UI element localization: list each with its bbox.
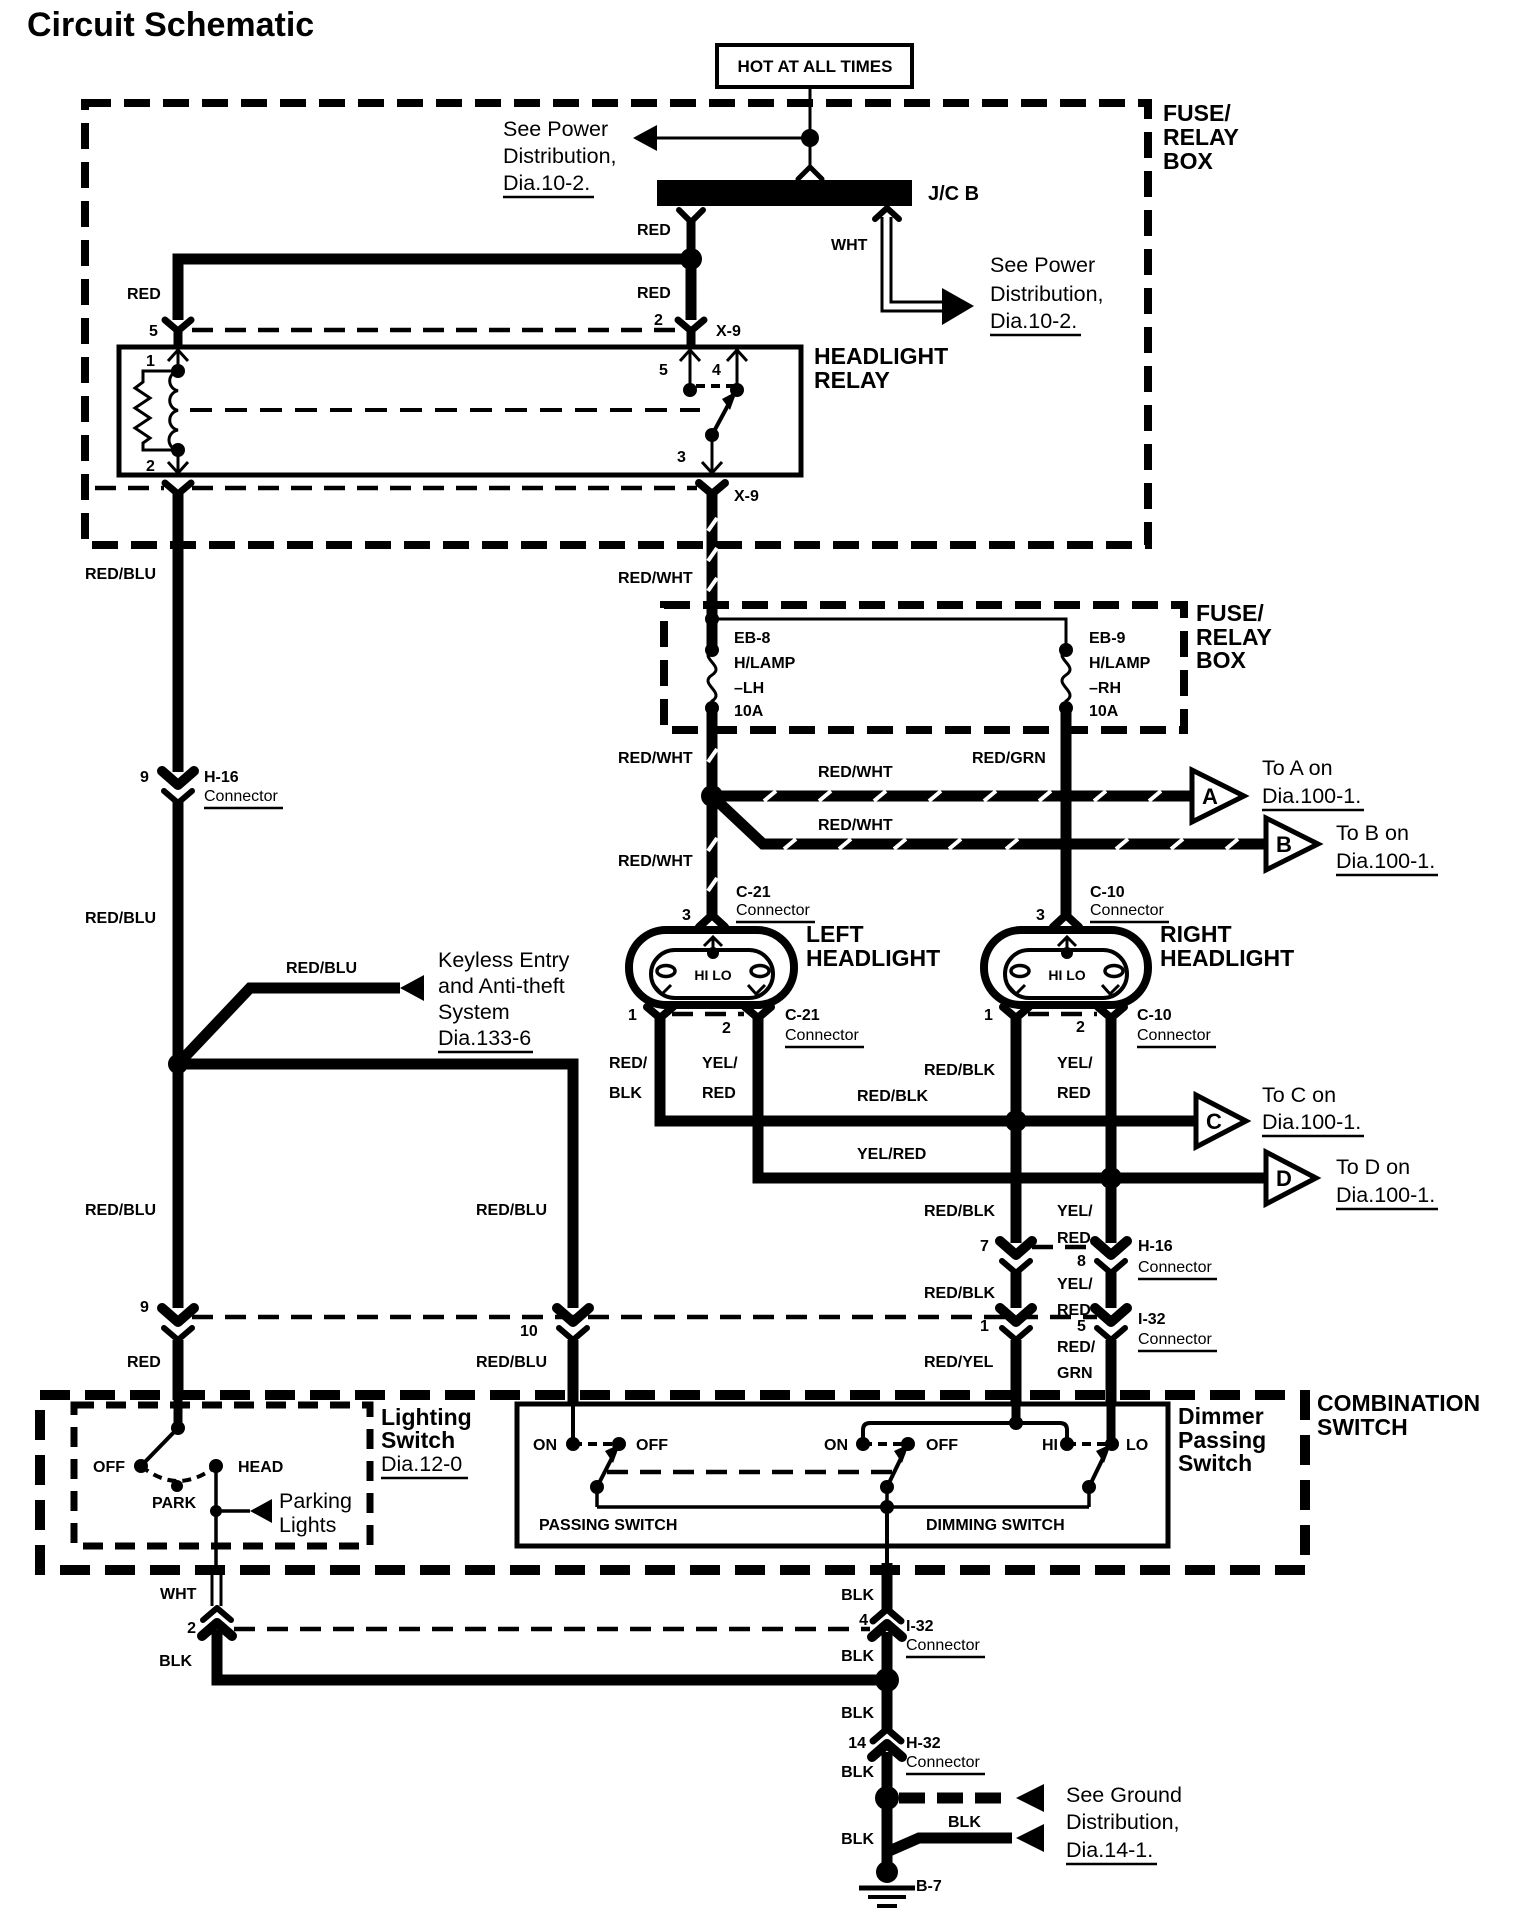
svg-text:WHT: WHT <box>160 1586 197 1603</box>
off-page arrow B <box>1266 818 1318 870</box>
node junction dot RED feed <box>680 248 702 270</box>
wire slash marks RED/WHT to left headlight <box>708 838 717 891</box>
svg-text:HI: HI <box>1042 1437 1058 1454</box>
svg-text:DIMMING SWITCH: DIMMING SWITCH <box>926 1517 1065 1534</box>
svg-text:To D on: To D on <box>1336 1155 1410 1179</box>
svg-text:HI LO: HI LO <box>694 967 731 983</box>
svg-text:C-10: C-10 <box>1137 1007 1172 1024</box>
LEFT HEADLIGHT label <box>806 921 940 971</box>
lamp left headlight inner shell <box>651 950 773 998</box>
wire HEAD contact down <box>214 1466 218 1569</box>
svg-text:RELAY: RELAY <box>1163 124 1239 150</box>
svg-text:YEL/RED: YEL/RED <box>857 1146 926 1163</box>
wire RED/GRN into LO contact <box>1106 1340 1117 1441</box>
connector H-16 pin 8 chevrons <box>1095 1241 1127 1273</box>
svg-text:I-32: I-32 <box>906 1618 934 1635</box>
left headlight LO filament contact <box>751 966 769 977</box>
svg-text:Lights: Lights <box>279 1513 336 1537</box>
COMBINATION SWITCH label <box>1317 1390 1480 1440</box>
connector C-21 pin 1 flare <box>647 1007 673 1018</box>
svg-text:Switch: Switch <box>1178 1450 1252 1476</box>
svg-text:C-21: C-21 <box>785 1007 820 1024</box>
svg-text:I-32: I-32 <box>1138 1311 1166 1328</box>
fuse EB-8 H/LAMP-LH 10A <box>705 643 719 715</box>
dashed connector line X-9 bottom <box>95 486 697 491</box>
wire link between fuses <box>712 619 1066 650</box>
svg-text:RED/BLU: RED/BLU <box>85 566 156 583</box>
svg-text:RED: RED <box>127 286 161 303</box>
svg-text:RED: RED <box>637 285 671 302</box>
svg-text:Connector: Connector <box>204 788 278 805</box>
svg-text:Connector: Connector <box>1137 1027 1211 1044</box>
RED/ BLK label left pin1 <box>609 1055 648 1102</box>
svg-text:J/C B: J/C B <box>928 183 979 205</box>
svg-text:X-9: X-9 <box>734 488 759 505</box>
wire BLK junction to H-32 <box>882 1680 893 1730</box>
wire RED/BLK left headlight pin 1 to C <box>660 1017 1196 1121</box>
svg-text:YEL/: YEL/ <box>1057 1203 1093 1220</box>
svg-text:Distribution,: Distribution, <box>503 144 617 168</box>
dashed connector line I-32 row <box>192 1315 1097 1320</box>
svg-text:3: 3 <box>1036 907 1045 924</box>
resistor relay coil shunt <box>135 371 178 450</box>
svg-text:RED: RED <box>127 1354 161 1371</box>
wire slash mark RED/WHT mid <box>708 749 717 762</box>
connector I-32 pin 2 chevrons <box>202 1608 232 1636</box>
svg-text:System: System <box>438 1000 510 1024</box>
svg-text:H-16: H-16 <box>1138 1238 1173 1255</box>
connector I-32 pin 4 chevrons <box>872 1609 902 1637</box>
dashed link passing ON-OFF <box>573 1442 619 1446</box>
See Power Distribution Dia.10-2 (right) label <box>990 253 1104 335</box>
off-page arrow C <box>1196 1095 1246 1147</box>
connector C-10 pin 1 flare <box>1003 1007 1029 1018</box>
wire YEL/RED to I-32 pin 5 <box>1106 1271 1117 1308</box>
wire arrow to See Power Distribution (left) <box>633 125 810 151</box>
fuse/relay box 2 label <box>1196 600 1272 673</box>
svg-text:HOT AT ALL TIMES: HOT AT ALL TIMES <box>738 57 893 76</box>
svg-text:2: 2 <box>722 1020 731 1037</box>
wire RED horizontal and down to relay pin 5 <box>178 259 691 320</box>
Parking Lights label <box>279 1489 352 1537</box>
svg-text:See Ground: See Ground <box>1066 1783 1182 1807</box>
svg-text:C-10: C-10 <box>1090 884 1125 901</box>
svg-text:Dia.10-2.: Dia.10-2. <box>503 171 590 195</box>
svg-text:RED/BLU: RED/BLU <box>476 1354 547 1371</box>
svg-text:OFF: OFF <box>926 1437 958 1454</box>
svg-text:BOX: BOX <box>1163 148 1214 174</box>
node parking lights tap <box>210 1505 222 1517</box>
dashed connector line H-16 right <box>1032 1245 1096 1250</box>
svg-text:LO: LO <box>1126 1437 1148 1454</box>
relay switch arm <box>712 391 737 435</box>
dashed wire to ground distribution arrow <box>899 1784 1044 1812</box>
right headlight HI filament contact <box>1011 966 1029 977</box>
svg-text:RED: RED <box>1057 1230 1091 1247</box>
node dimming arm contact <box>880 1480 894 1494</box>
off-page arrow D <box>1266 1152 1316 1204</box>
svg-text:Dia.100-1.: Dia.100-1. <box>1336 849 1435 873</box>
svg-text:9: 9 <box>140 769 149 786</box>
svg-text:Connector: Connector <box>1090 902 1164 919</box>
svg-text:H/LAMP: H/LAMP <box>1089 655 1151 672</box>
dimming LO arm with arrow <box>1089 1444 1111 1487</box>
svg-text:3: 3 <box>682 907 691 924</box>
right headlight feed arrow and node <box>1058 937 1076 959</box>
svg-text:BLK: BLK <box>841 1764 874 1781</box>
combination switch outer dashed box <box>40 1395 1305 1570</box>
To B on Dia.100-1 label <box>1336 821 1438 875</box>
svg-text:10: 10 <box>520 1323 538 1340</box>
wire RED/WHT to B arrow <box>712 796 1266 844</box>
svg-text:Distribution,: Distribution, <box>990 282 1104 306</box>
wire BLK to ground <box>882 1752 893 1868</box>
To A on Dia.100-1 label <box>1262 756 1364 810</box>
node junction keyless branch <box>168 1054 188 1074</box>
wire RED/WHT from relay pin 3 into fuse box <box>707 492 718 650</box>
svg-text:OFF: OFF <box>636 1437 668 1454</box>
H-16 connector name right <box>1138 1238 1217 1279</box>
svg-text:10A: 10A <box>734 703 764 720</box>
svg-text:RED/BLU: RED/BLU <box>286 960 357 977</box>
connector flare at J/C B top <box>798 167 822 179</box>
junction block J/C B bar <box>657 180 912 206</box>
dashed link between contacts 5 and 4 <box>696 384 736 388</box>
svg-text:RED/: RED/ <box>1057 1339 1096 1356</box>
svg-text:4: 4 <box>712 362 721 379</box>
svg-text:2: 2 <box>146 458 155 475</box>
svg-text:Dia.10-2.: Dia.10-2. <box>990 309 1077 333</box>
svg-text:RED/YEL: RED/YEL <box>924 1354 994 1371</box>
C-21 connector name upper <box>736 884 815 922</box>
node OFF contact lighting <box>134 1459 148 1473</box>
connector X-9 pin 5 flare <box>165 320 191 347</box>
svg-text:RED/BLK: RED/BLK <box>857 1088 929 1105</box>
Lighting Switch Dia.12-0 label <box>381 1404 472 1478</box>
relay pin 2 arrow <box>168 450 188 473</box>
svg-text:RED/BLU: RED/BLU <box>85 1202 156 1219</box>
svg-text:BLK: BLK <box>609 1085 642 1102</box>
svg-text:2: 2 <box>1076 1019 1085 1036</box>
svg-text:HI LO: HI LO <box>1048 967 1085 983</box>
svg-text:ON: ON <box>533 1437 557 1454</box>
connector H-32 pin 14 chevrons <box>872 1729 902 1757</box>
lamp left headlight outer shell <box>629 930 794 1005</box>
svg-text:RED/GRN: RED/GRN <box>972 750 1046 767</box>
svg-text:RED/WHT: RED/WHT <box>818 764 893 781</box>
svg-text:To B on: To B on <box>1336 821 1409 845</box>
svg-text:See Power: See Power <box>990 253 1095 277</box>
svg-text:Dimmer: Dimmer <box>1178 1403 1264 1429</box>
wire RED/BLU left column middle <box>173 801 184 1308</box>
connector H-16 pin 7 chevrons <box>1000 1241 1032 1273</box>
svg-text:RED/BLU: RED/BLU <box>476 1202 547 1219</box>
svg-text:RED/WHT: RED/WHT <box>618 853 693 870</box>
svg-text:2: 2 <box>654 312 663 329</box>
node BLK junction <box>875 1668 899 1692</box>
svg-text:5: 5 <box>659 362 668 379</box>
wire LO arm to common <box>1087 1487 1091 1507</box>
svg-text:and Anti-theft: and Anti-theft <box>438 974 565 998</box>
wire RED/YEL into dimming switch <box>1011 1340 1022 1423</box>
wire slash marks B wire <box>784 839 1238 849</box>
fuse EB-9 label <box>1089 630 1151 720</box>
node junction to A and B arrows <box>701 785 723 807</box>
C-21 connector name lower <box>785 1007 864 1047</box>
svg-text:RED/BLK: RED/BLK <box>924 1285 996 1302</box>
svg-text:Connector: Connector <box>906 1754 980 1771</box>
lamp right headlight outer shell <box>984 930 1148 1005</box>
wire RED/WHT to A arrow <box>712 791 1192 802</box>
wire dimming arm to common <box>885 1487 889 1507</box>
svg-text:Connector: Connector <box>736 902 810 919</box>
svg-text:BLK: BLK <box>841 1705 874 1722</box>
svg-text:EB-8: EB-8 <box>734 630 771 647</box>
node ground distribution junction <box>875 1786 899 1810</box>
C-10 connector name upper <box>1090 884 1169 922</box>
node LO arm contact <box>1082 1480 1096 1494</box>
svg-text:D: D <box>1276 1166 1292 1191</box>
wire into lighting switch pivot <box>174 1400 183 1428</box>
wire relay common to pin 3 <box>711 435 714 473</box>
left headlight feed arrow and node <box>704 937 722 959</box>
See Ground Distribution Dia.14-1 label <box>1066 1783 1182 1864</box>
lighting switch arm <box>141 1428 178 1466</box>
fuse EB-9 H/LAMP-RH 10A <box>1059 643 1073 715</box>
svg-text:3: 3 <box>677 449 686 466</box>
svg-text:SWITCH: SWITCH <box>1317 1414 1408 1440</box>
connector flare below J/C B left <box>679 210 703 252</box>
svg-text:10A: 10A <box>1089 703 1119 720</box>
svg-text:LEFT: LEFT <box>806 921 864 947</box>
node relay contact 4 <box>730 383 744 397</box>
wire common bus in switch box <box>597 1505 1089 1509</box>
wire RED/BLU into passing switch <box>568 1340 579 1444</box>
svg-text:GRN: GRN <box>1057 1365 1093 1382</box>
svg-text:Dia.100-1.: Dia.100-1. <box>1262 1110 1361 1134</box>
wire BLK from pin 2 to ground junction <box>217 1630 887 1680</box>
fuse/relay box 1 dashed border <box>85 103 1148 545</box>
svg-text:5: 5 <box>149 323 158 340</box>
C-10 connector name lower <box>1137 1007 1216 1047</box>
YEL/ RED label above I-32 <box>1057 1276 1093 1319</box>
svg-text:BLK: BLK <box>841 1648 874 1665</box>
node dimming feed junction <box>1009 1416 1023 1430</box>
wire RED/BLU branch to keyless entry <box>178 975 424 1064</box>
node LO contact <box>1105 1437 1119 1451</box>
svg-text:RED/BLK: RED/BLK <box>924 1203 996 1220</box>
node HEAD contact <box>209 1459 223 1473</box>
svg-text:8: 8 <box>1077 1253 1086 1270</box>
I-32 connector name right <box>1138 1311 1217 1351</box>
wire RED/GRN from fuse EB-9 down <box>1061 708 1072 916</box>
wire slash marks A wire <box>764 791 1161 801</box>
svg-text:BLK: BLK <box>841 1587 874 1604</box>
svg-text:See Power: See Power <box>503 117 608 141</box>
connector I-32 pin 1 chevrons <box>1000 1308 1032 1340</box>
svg-text:1: 1 <box>980 1318 989 1335</box>
H-32 connector name <box>906 1735 985 1774</box>
dashed link dimming ON-OFF <box>863 1442 908 1446</box>
svg-text:PARK: PARK <box>152 1495 197 1512</box>
svg-text:ON: ON <box>824 1437 848 1454</box>
node junction at power feed <box>801 129 819 147</box>
wire slash marks RED/WHT upper <box>708 518 717 591</box>
dashed throw arc lighting switch <box>141 1466 216 1481</box>
fuse/relay box 1 label <box>1163 100 1239 174</box>
wire BLK pin 4 to junction <box>882 1632 893 1680</box>
dashed link HI-LO <box>1067 1442 1112 1446</box>
svg-text:RED/WHT: RED/WHT <box>618 750 693 767</box>
wire RED/BLK right headlight pin 1 down <box>1011 1017 1022 1243</box>
wire YEL/RED left headlight pin 2 to D <box>758 1017 1266 1178</box>
svg-text:X-9: X-9 <box>716 323 741 340</box>
wire from HOT AT ALL TIMES down <box>809 87 812 166</box>
connector I-32 pin 9 chevrons <box>162 1308 194 1340</box>
svg-text:H-16: H-16 <box>204 769 239 786</box>
svg-text:RED/WHT: RED/WHT <box>618 570 693 587</box>
lighting switch dashed box <box>74 1405 370 1546</box>
svg-text:4: 4 <box>859 1612 868 1629</box>
right headlight LO filament contact <box>1105 966 1123 977</box>
svg-text:14: 14 <box>848 1735 866 1752</box>
wire arrow to parking lights <box>216 1499 272 1523</box>
connector flare WHT at J/C B <box>875 208 899 219</box>
relay U1 headlight relay box <box>119 347 801 475</box>
svg-text:1: 1 <box>628 1007 637 1024</box>
svg-text:9: 9 <box>140 1299 149 1316</box>
svg-text:OFF: OFF <box>93 1459 125 1476</box>
svg-text:YEL/: YEL/ <box>1057 1055 1093 1072</box>
H-16 connector name left <box>204 769 283 808</box>
RED/ GRN label below pin 5 <box>1057 1339 1096 1382</box>
svg-text:Dia.12-0: Dia.12-0 <box>381 1452 462 1476</box>
node relay coil bottom <box>171 443 185 457</box>
dashed connector line I-32 bottom <box>234 1627 870 1632</box>
HEADLIGHT RELAY label <box>814 343 948 393</box>
svg-text:RED/: RED/ <box>609 1055 648 1072</box>
connector I-32 pin 5 chevrons <box>1095 1308 1127 1340</box>
wire WHT double line <box>212 1569 221 1606</box>
wire BLK out of switch box <box>885 1507 889 1610</box>
node fuse feed junction <box>705 612 719 626</box>
wire dimming feed to ON and HI <box>863 1423 1067 1444</box>
svg-text:B: B <box>1276 832 1292 857</box>
To C on Dia.100-1 label <box>1262 1083 1364 1136</box>
dimmer passing switch solid box <box>517 1404 1168 1546</box>
svg-text:–LH: –LH <box>734 680 764 697</box>
svg-text:RED/BLU: RED/BLU <box>85 910 156 927</box>
svg-text:HEADLIGHT: HEADLIGHT <box>1160 945 1294 971</box>
inductor relay coil <box>169 371 178 450</box>
dashed connector line C-21 <box>672 1012 744 1017</box>
svg-text:HEADLIGHT: HEADLIGHT <box>806 945 940 971</box>
node passing ON contact <box>566 1437 580 1451</box>
svg-text:RED: RED <box>637 222 671 239</box>
svg-text:RED: RED <box>702 1085 736 1102</box>
svg-text:7: 7 <box>980 1238 989 1255</box>
node relay contact 5 <box>683 383 697 397</box>
svg-text:C: C <box>1206 1109 1222 1134</box>
svg-text:A: A <box>1202 784 1218 809</box>
svg-text:BOX: BOX <box>1196 647 1247 673</box>
svg-text:Dia.14-1.: Dia.14-1. <box>1066 1838 1153 1862</box>
svg-text:B-7: B-7 <box>916 1878 942 1895</box>
svg-text:Distribution,: Distribution, <box>1066 1810 1180 1834</box>
svg-text:Circuit Schematic: Circuit Schematic <box>27 6 314 44</box>
fuse/relay box 2 dashed border <box>664 605 1184 730</box>
connector C-21 flare above left headlight <box>699 915 725 927</box>
svg-text:BLK: BLK <box>841 1831 874 1848</box>
svg-text:Connector: Connector <box>1138 1259 1212 1276</box>
ground symbol B-7 <box>859 1861 915 1906</box>
svg-text:1: 1 <box>984 1007 993 1024</box>
connector X-9 relay pin 3 bottom flare <box>699 483 725 494</box>
svg-text:2: 2 <box>187 1620 196 1637</box>
svg-text:To A on: To A on <box>1262 756 1333 780</box>
svg-text:Connector: Connector <box>906 1637 980 1654</box>
node common bus junction <box>880 1500 894 1514</box>
svg-text:COMBINATION: COMBINATION <box>1317 1390 1480 1416</box>
See Power Distribution Dia.10-2 (left) label <box>503 117 617 197</box>
relay pin 1 arrow <box>168 349 188 371</box>
relay pin 4 arrow <box>727 350 747 390</box>
svg-text:Connector: Connector <box>785 1027 859 1044</box>
wire BLK branch to ground distribution arrow <box>887 1824 1044 1852</box>
svg-text:–RH: –RH <box>1089 680 1121 697</box>
svg-text:BLK: BLK <box>159 1653 192 1670</box>
wire RED into lighting switch <box>173 1340 184 1400</box>
I-32 connector name bottom <box>906 1618 985 1657</box>
svg-text:WHT: WHT <box>831 237 868 254</box>
node dimming ON contact <box>856 1437 870 1451</box>
node relay coil top <box>171 364 185 378</box>
node dimming OFF contact <box>901 1437 915 1451</box>
svg-text:FUSE/: FUSE/ <box>1163 100 1231 126</box>
wire RED/WHT from fuse EB-8 down <box>707 708 718 916</box>
Dimmer Passing Switch label <box>1178 1403 1266 1476</box>
connector X-9 pin 2 flare <box>678 320 704 347</box>
svg-text:EB-9: EB-9 <box>1089 630 1126 647</box>
dashed mechanical link relay <box>190 408 700 412</box>
lamp right headlight inner shell <box>1005 950 1127 998</box>
passing switch arm with arrow <box>597 1444 620 1487</box>
svg-text:C-21: C-21 <box>736 884 771 901</box>
dashed mechanical link switches <box>607 1470 894 1475</box>
off-page arrow A <box>1192 770 1244 822</box>
YEL/ RED label above H-16 <box>1057 1203 1093 1247</box>
RIGHT HEADLIGHT label <box>1160 921 1294 971</box>
connector C-10 flare above right headlight <box>1053 915 1079 927</box>
HOT AT ALL TIMES box <box>717 45 912 87</box>
connector C-10 pin 2 flare <box>1098 1007 1124 1018</box>
dashed connector line X-9 top <box>192 328 676 333</box>
svg-text:To C on: To C on <box>1262 1083 1336 1107</box>
wire RED from junction down to X-9 pin 2 <box>686 259 697 320</box>
svg-text:FUSE/: FUSE/ <box>1196 600 1264 626</box>
svg-text:RED/BLK: RED/BLK <box>924 1062 996 1079</box>
relay pin 5 arrow <box>680 350 700 390</box>
svg-text:RED/WHT: RED/WHT <box>818 817 893 834</box>
wire WHT double line to power distribution <box>882 217 974 325</box>
right headlight HI output chevron <box>1008 985 1025 994</box>
svg-text:Dia.100-1.: Dia.100-1. <box>1262 784 1361 808</box>
svg-text:Keyless Entry: Keyless Entry <box>438 948 570 972</box>
svg-text:Parking: Parking <box>279 1489 352 1513</box>
YEL/ RED label left pin2 <box>702 1055 738 1102</box>
svg-text:Connector: Connector <box>1138 1331 1212 1348</box>
node passing arm contact <box>590 1480 604 1494</box>
